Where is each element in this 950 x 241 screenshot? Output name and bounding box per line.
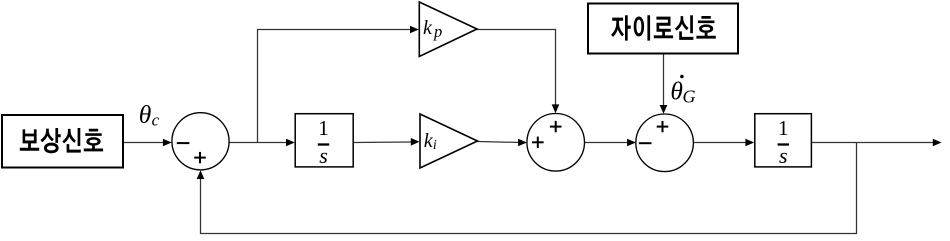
svg-text:θ: θ <box>670 77 683 106</box>
svg-text:1: 1 <box>778 116 789 140</box>
svg-text:1: 1 <box>318 116 329 140</box>
svg-text:c: c <box>152 111 160 130</box>
svg-text:G: G <box>683 86 696 106</box>
svg-text:s: s <box>779 143 788 168</box>
svg-text:p: p <box>433 22 442 41</box>
svg-text:θ: θ <box>139 100 152 129</box>
svg-text:i: i <box>433 138 437 153</box>
svg-text:s: s <box>319 143 328 168</box>
svg-text:k: k <box>423 17 433 39</box>
